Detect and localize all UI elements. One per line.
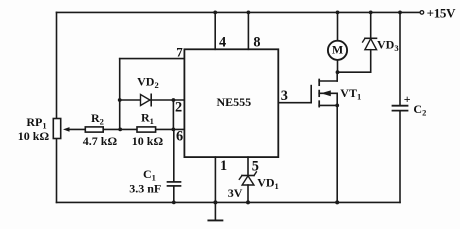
diode VD3 (363, 12, 377, 72)
node junction source (335, 104, 339, 108)
wire source to bottom rail (336, 105, 338, 202)
wire left branch vertical (119, 59, 121, 130)
node junction pin2 (172, 98, 176, 102)
wire motor branch top (337, 12, 339, 40)
wire drain to VD3 horizontal (338, 71, 371, 73)
svg-text:M: M (332, 43, 343, 57)
wire bottom rail (57, 201, 401, 203)
wire pin1 vertical (214, 157, 216, 202)
capacitor C2 (393, 12, 408, 202)
terminal +15V (420, 11, 424, 15)
wire pin8 vertical (247, 12, 249, 49)
wire left vertical upper (56, 12, 58, 118)
node junction pin4 top (213, 11, 217, 15)
wire pin7 horizontal (120, 58, 185, 60)
wire pin3 horizontal (279, 102, 312, 104)
node junction VD1 bottom (246, 200, 250, 204)
svg-text:7: 7 (176, 45, 183, 60)
node junction C2 top (398, 11, 402, 15)
svg-text:10 kΩ: 10 kΩ (18, 129, 50, 143)
svg-text:NE555: NE555 (217, 95, 252, 109)
resistor R2 (85, 127, 103, 132)
wire mid horizontal (wiper to pin6) (69, 128, 185, 130)
svg-text:2: 2 (175, 100, 182, 116)
wire pin5 vertical (247, 157, 249, 175)
transistor Q1 VT1 MOSFET (311, 72, 337, 106)
svg-text:3: 3 (281, 88, 288, 104)
node junction drain (336, 70, 340, 74)
motor M (328, 41, 347, 60)
wire pin2 horizontal (120, 99, 185, 101)
node junction VD2 tap (118, 98, 122, 102)
svg-text:4.7 kΩ: 4.7 kΩ (83, 134, 118, 148)
node junction pin8 top (247, 11, 251, 15)
svg-text:+: + (404, 92, 411, 106)
svg-text:6: 6 (176, 128, 183, 144)
node junction motor top (336, 11, 340, 15)
wire left vertical lower (56, 139, 58, 203)
svg-text:5: 5 (252, 158, 259, 174)
node junction pin1 bottom (213, 200, 217, 204)
wire pin4 vertical (214, 12, 216, 49)
wire top supply rail (57, 11, 420, 13)
svg-text:10 kΩ: 10 kΩ (132, 134, 164, 148)
node junction C1 bottom (172, 201, 176, 205)
node junction VD3 top (369, 11, 373, 15)
potentiometer RP1 (53, 119, 69, 139)
svg-text:8: 8 (253, 35, 260, 51)
wire motor bottom (337, 60, 339, 72)
svg-text:+15V: +15V (427, 5, 457, 20)
diode VD1 zener 3V (239, 172, 256, 203)
node junction R2-R1 (118, 127, 122, 131)
capacitor C1 (168, 129, 181, 202)
ground (208, 202, 222, 220)
node junction pin6 (172, 127, 176, 131)
svg-text:3.3 nF: 3.3 nF (129, 182, 161, 196)
node junction source bottom (335, 200, 339, 204)
svg-text:1: 1 (220, 158, 227, 174)
resistor R1 (137, 127, 156, 132)
svg-text:3V: 3V (228, 186, 243, 200)
wire tie pin2-pin6 vertical (172, 100, 174, 129)
diode VD2 (141, 94, 152, 105)
svg-text:4: 4 (219, 35, 226, 51)
op-amp U1 NE555 box (184, 49, 278, 157)
